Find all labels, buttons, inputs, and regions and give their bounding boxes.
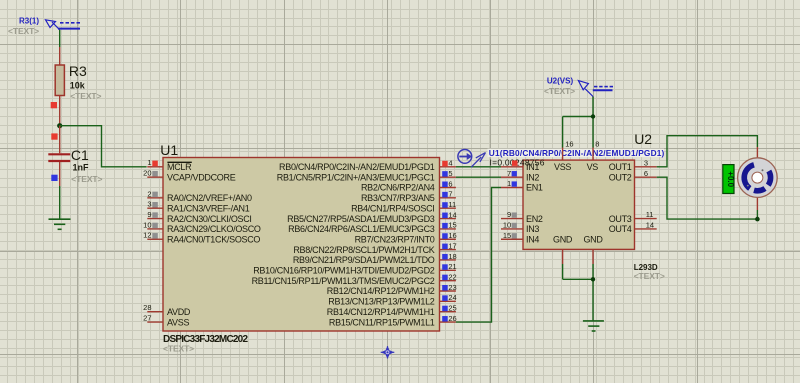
svg-text:27: 27 (143, 313, 151, 322)
svg-text:14: 14 (448, 210, 456, 219)
svg-text:28: 28 (143, 303, 151, 312)
svg-text:23: 23 (448, 283, 456, 292)
svg-text:<TEXT>: <TEXT> (8, 26, 39, 36)
svg-text:14: 14 (646, 221, 654, 230)
svg-text:6: 6 (644, 169, 648, 178)
svg-text:4: 4 (448, 159, 452, 168)
svg-text:RA2/CN30/CLKI/OSCI: RA2/CN30/CLKI/OSCI (167, 214, 252, 224)
svg-text:OUT3: OUT3 (609, 214, 632, 224)
svg-text:RB0/CN4/RP0/C2IN-/AN2/EMUD1/PG: RB0/CN4/RP0/C2IN-/AN2/EMUD1/PGD1 (279, 162, 435, 172)
svg-text:25: 25 (448, 304, 456, 313)
svg-text:10k: 10k (70, 81, 86, 91)
svg-text:IN4: IN4 (526, 234, 539, 244)
svg-text:7: 7 (448, 190, 452, 199)
svg-text:15: 15 (503, 231, 511, 240)
svg-text:GND: GND (553, 234, 573, 244)
svg-text:24: 24 (448, 293, 456, 302)
svg-text:<TEXT>: <TEXT> (70, 91, 101, 101)
svg-text:U1(RB0/CN4/RP0/C2IN-/AN2/EMUD1: U1(RB0/CN4/RP0/C2IN-/AN2/EMUD1/PGD1) (489, 148, 665, 158)
svg-text:RB12/CN14/RP12/PWM1H2: RB12/CN14/RP12/PWM1H2 (327, 286, 435, 296)
svg-text:RA0/CN2/VREF+/AN0: RA0/CN2/VREF+/AN0 (167, 193, 252, 203)
svg-text:RB10/CN16/RP10/PWM1H3/TDI/EMUD: RB10/CN16/RP10/PWM1H3/TDI/EMUD2/PGD2 (253, 266, 435, 276)
svg-text:10: 10 (143, 220, 151, 229)
svg-text:U1: U1 (160, 142, 178, 158)
svg-text:RB14/CN12/RP14/PWM1H1: RB14/CN12/RP14/PWM1H1 (327, 307, 435, 317)
svg-text:11: 11 (448, 200, 456, 209)
svg-text:1: 1 (507, 179, 511, 188)
svg-text:<TEXT>: <TEXT> (71, 174, 102, 184)
svg-text:RB15/CN11/RP15/PWM1L1: RB15/CN11/RP15/PWM1L1 (329, 317, 435, 327)
svg-text:VSS: VSS (554, 162, 571, 172)
svg-text:12: 12 (143, 231, 151, 240)
svg-text:RB5/CN27/RP5/ASDA1/EMUD3/PGD3: RB5/CN27/RP5/ASDA1/EMUD3/PGD3 (287, 214, 435, 224)
svg-text:<TEXT>: <TEXT> (544, 86, 575, 96)
svg-text:U2: U2 (634, 131, 652, 147)
svg-text:RA4/CN0/T1CK/SOSCO: RA4/CN0/T1CK/SOSCO (167, 234, 260, 244)
svg-text:10: 10 (503, 221, 511, 230)
svg-text:VS: VS (587, 162, 599, 172)
svg-text:8: 8 (595, 139, 599, 148)
svg-text:OUT2: OUT2 (609, 172, 632, 182)
svg-text:C1: C1 (71, 147, 89, 163)
svg-text:IN2: IN2 (526, 172, 539, 182)
svg-text:18: 18 (448, 252, 456, 261)
svg-text:RB3/CN7/RP3/AN5: RB3/CN7/RP3/AN5 (361, 193, 435, 203)
svg-text:IN3: IN3 (526, 224, 539, 234)
svg-text:5: 5 (448, 169, 452, 178)
svg-text:20: 20 (143, 169, 151, 178)
svg-text:2: 2 (147, 189, 151, 198)
svg-text:7: 7 (507, 169, 511, 178)
svg-text:RB6/CN24/RP6/ASCL1/EMUC3/PGC3: RB6/CN24/RP6/ASCL1/EMUC3/PGC3 (288, 224, 435, 234)
svg-text:<TEXT>: <TEXT> (163, 344, 194, 354)
svg-text:3: 3 (147, 200, 151, 209)
svg-text:+0.0: +0.0 (726, 171, 735, 187)
svg-text:3: 3 (644, 158, 648, 167)
svg-text:22: 22 (448, 272, 456, 281)
svg-text:RB13/CN13/RP13/PWM1L2: RB13/CN13/RP13/PWM1L2 (328, 297, 435, 307)
svg-text:U2(VS): U2(VS) (547, 76, 574, 85)
svg-text:1nF: 1nF (73, 163, 90, 173)
svg-text:RB11/CN15/RP11/PWM1L3/TMS/EMUC: RB11/CN15/RP11/PWM1L3/TMS/EMUC2/PGC2 (252, 276, 435, 286)
svg-text:16: 16 (448, 231, 456, 240)
svg-text:16: 16 (565, 139, 573, 148)
svg-text:6: 6 (448, 179, 452, 188)
svg-text:9: 9 (147, 210, 151, 219)
svg-text:<TEXT>: <TEXT> (634, 271, 665, 281)
svg-text:RB8/CN22/RP8/SCL1/PWM2H1/TCK: RB8/CN22/RP8/SCL1/PWM2H1/TCK (293, 245, 434, 255)
svg-text:R3(1): R3(1) (19, 17, 39, 26)
svg-text:RB1/CN5/RP1/C2IN+/AN3/EMUC1/PG: RB1/CN5/RP1/C2IN+/AN3/EMUC1/PGC1 (277, 172, 435, 182)
svg-text:26: 26 (448, 314, 456, 323)
svg-text:OUT1: OUT1 (609, 162, 632, 172)
svg-text:17: 17 (448, 241, 456, 250)
svg-text:GND: GND (583, 234, 603, 244)
svg-text:RB7/CN23/RP7/INT0: RB7/CN23/RP7/INT0 (355, 234, 435, 244)
svg-text:AVDD: AVDD (167, 307, 191, 317)
svg-text:VCAP/VDDCORE: VCAP/VDDCORE (167, 172, 236, 182)
svg-text:MCLR: MCLR (167, 162, 192, 172)
svg-text:RB2/CN6/RP2/AN4: RB2/CN6/RP2/AN4 (361, 183, 435, 193)
svg-text:RA3/CN29/CLKO/OSCO: RA3/CN29/CLKO/OSCO (167, 224, 261, 234)
svg-text:EN2: EN2 (526, 214, 543, 224)
svg-text:RB4/CN1/RP4/SOSCI: RB4/CN1/RP4/SOSCI (351, 203, 434, 213)
svg-text:EN1: EN1 (526, 183, 543, 193)
svg-text:OUT4: OUT4 (609, 224, 632, 234)
svg-text:RA1/CN3/VREF-/AN1: RA1/CN3/VREF-/AN1 (167, 203, 250, 213)
svg-text:R3: R3 (69, 63, 87, 79)
svg-text:11: 11 (646, 210, 654, 219)
svg-text:RB9/CN21/RP9/SDA1/PWM2L1/TDO: RB9/CN21/RP9/SDA1/PWM2L1/TDO (293, 255, 435, 265)
svg-text:9: 9 (507, 210, 511, 219)
svg-text:21: 21 (448, 262, 456, 271)
svg-text:AVSS: AVSS (167, 317, 189, 327)
svg-text:15: 15 (448, 221, 456, 230)
svg-text:1: 1 (147, 158, 151, 167)
